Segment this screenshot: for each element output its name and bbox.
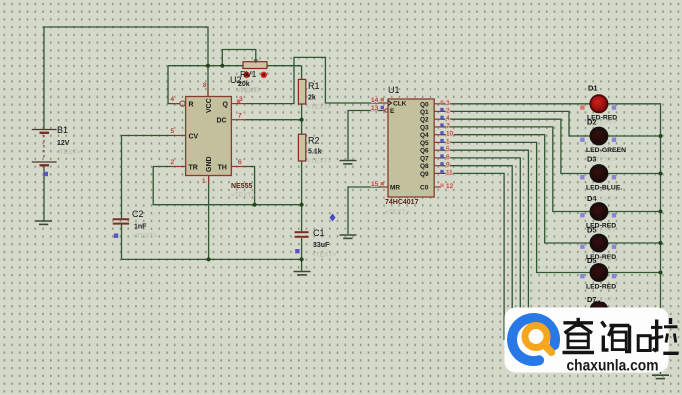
svg-text:1nF: 1nF: [134, 224, 147, 231]
svg-text:6: 6: [238, 159, 242, 166]
svg-text:10: 10: [446, 131, 454, 138]
wire 555 GND pin down: [208, 176, 210, 260]
svg-text:B1: B1: [57, 125, 68, 135]
wire TR loop under 555: [153, 167, 301, 205]
blue origin marker: [330, 214, 336, 222]
wire D1 to right bus: [608, 104, 661, 374]
capacitor C1 value 33uF: [295, 228, 337, 259]
svg-text:Q6: Q6: [420, 148, 429, 155]
svg-text:GND: GND: [206, 156, 213, 172]
junction node at wiper tap: [220, 64, 224, 68]
svg-text:14: 14: [371, 97, 379, 104]
svg-text:<TEXT>: <TEXT>: [307, 104, 331, 111]
svg-text:<TEXT>: <TEXT>: [56, 149, 80, 156]
wire Q3 to D4: [441, 127, 590, 212]
svg-text:11: 11: [446, 170, 453, 177]
svg-text:<TEXT>: <TEXT>: [592, 297, 616, 304]
svg-text:13: 13: [371, 105, 379, 112]
wire E pin to ground: [348, 111, 382, 160]
svg-text:Q1: Q1: [420, 109, 429, 116]
svg-text:<TEXT>: <TEXT>: [312, 252, 336, 259]
svg-text:Q9: Q9: [420, 171, 429, 178]
svg-text:2: 2: [171, 159, 175, 166]
junction node TH-TR: [253, 203, 257, 207]
svg-text:Q5: Q5: [420, 140, 429, 147]
wire RV1 to R1 top: [301, 66, 303, 80]
wire D2 to bus: [608, 135, 661, 137]
wire DC pin 7: [246, 119, 302, 121]
svg-text:MR: MR: [390, 185, 400, 192]
wire MR pin to ground: [348, 187, 382, 234]
svg-text:12V: 12V: [57, 140, 70, 147]
wire TH node to C1: [301, 205, 303, 232]
svg-text:Q3: Q3: [420, 124, 429, 131]
wire D7 to bus: [608, 309, 661, 311]
junction node bus D2: [659, 134, 663, 138]
op timer NE555 U2: [171, 75, 262, 199]
svg-text:<TEXT>: <TEXT>: [592, 228, 616, 235]
svg-text:CLK: CLK: [393, 101, 407, 108]
wire Q5 to D6: [441, 142, 590, 272]
svg-text:2: 2: [446, 108, 450, 115]
svg-text:<TEXT>: <TEXT>: [231, 192, 255, 199]
LED D1 lit red: [580, 84, 617, 122]
watermark chaxunla: [505, 308, 669, 373]
svg-text:6: 6: [446, 154, 450, 161]
LED D2 green off: [580, 118, 626, 155]
svg-text:<TEXT>: <TEXT>: [592, 120, 616, 127]
svg-text:<TEXT>: <TEXT>: [385, 209, 409, 216]
junction node bus D6: [659, 271, 663, 275]
wire DC node to R2 top: [301, 120, 303, 135]
svg-text:<TEXT>: <TEXT>: [307, 158, 331, 165]
wire battery negative to ground: [43, 167, 45, 221]
wire Q8 down: [441, 166, 512, 340]
svg-text:LED-GREEN: LED-GREEN: [586, 147, 626, 154]
svg-text:TH: TH: [218, 165, 227, 172]
battery B1: [32, 125, 81, 176]
svg-text:7: 7: [238, 113, 242, 120]
ground for MR pin: [340, 235, 357, 238]
resistor R1 2k: [298, 79, 331, 111]
wire D3 to bus: [608, 173, 661, 175]
svg-text:C2: C2: [132, 209, 144, 219]
wire RV1 wiper: [222, 50, 256, 66]
wire D5 to bus: [608, 242, 661, 244]
wire Q0 to D1: [441, 103, 590, 105]
wire D6 to bus: [608, 272, 661, 274]
wire Q9 down: [441, 173, 504, 340]
svg-text:E: E: [390, 108, 395, 115]
resistor R2 5.1k: [298, 134, 331, 165]
wire VCC rail from battery to 555: [44, 27, 208, 130]
wire Q4 to D5: [441, 135, 590, 243]
svg-text:3: 3: [446, 100, 450, 107]
junction node at C1 bottom: [300, 257, 304, 261]
potentiometer RV1 20k: [236, 60, 267, 95]
watermark chinese text: [563, 318, 679, 354]
svg-text:LED-BLUE.: LED-BLUE.: [586, 185, 622, 192]
LED D3 blue off: [580, 155, 622, 192]
svg-text:D1: D1: [588, 84, 598, 93]
wire ground bus under 555: [122, 224, 302, 259]
svg-text:U2: U2: [230, 75, 242, 85]
LED D4 red off: [580, 194, 616, 230]
svg-text:9: 9: [446, 162, 450, 169]
wire C1 bottom to ground: [301, 238, 303, 271]
ground below C1: [294, 272, 311, 275]
svg-text:15: 15: [371, 181, 379, 188]
wire main horizontal VCC node: [168, 65, 302, 67]
wire Q7 down: [441, 158, 520, 340]
capacitor C2 value 1nF: [113, 209, 158, 240]
svg-text:Q8: Q8: [420, 163, 429, 170]
svg-text:4: 4: [171, 96, 175, 103]
wire R2 bottom to TH node: [301, 161, 303, 205]
junction node bus D5: [659, 241, 663, 245]
svg-text:C1: C1: [313, 228, 325, 238]
svg-text:VCC: VCC: [206, 98, 213, 113]
wire CV to C2: [122, 136, 172, 219]
wire R1 bottom to DC node: [301, 104, 303, 120]
svg-text:R: R: [189, 102, 194, 109]
wire Q6 to D7: [441, 150, 590, 310]
svg-text:R2: R2: [308, 136, 320, 146]
svg-text:<TEXT>: <TEXT>: [133, 233, 157, 240]
ground bottom right bus: [652, 375, 669, 378]
svg-text:<TEXT>: <TEXT>: [592, 258, 616, 265]
ground for E pin: [340, 161, 357, 164]
wire TH pin 6 down: [246, 167, 255, 205]
svg-text:RV1: RV1: [240, 69, 257, 79]
svg-text:8: 8: [203, 82, 207, 89]
svg-text:Q2: Q2: [420, 117, 429, 124]
svg-text:<TEXT>: <TEXT>: [592, 157, 616, 164]
svg-text:12: 12: [446, 183, 454, 190]
svg-text:1: 1: [446, 139, 450, 146]
svg-text:Q0: Q0: [420, 101, 429, 108]
svg-text:1: 1: [202, 178, 206, 185]
svg-text:<TEXT>: <TEXT>: [237, 87, 261, 94]
wire Q2 to D3: [441, 119, 590, 173]
svg-text:TR: TR: [189, 165, 198, 172]
svg-text:U1: U1: [388, 85, 400, 95]
LED D7 red off partially hidden: [580, 295, 616, 319]
svg-text:chaxunla.com: chaxunla.com: [567, 358, 659, 375]
ground battery: [35, 221, 52, 224]
wire reset pin loop: [168, 66, 180, 104]
svg-text:NE555: NE555: [231, 183, 253, 190]
svg-text:2k: 2k: [308, 95, 316, 102]
svg-text:CV: CV: [189, 134, 199, 141]
svg-text:DC: DC: [217, 118, 227, 125]
svg-text:5.1k: 5.1k: [308, 149, 322, 156]
svg-text:<TEXT>: <TEXT>: [592, 196, 616, 203]
LED D6 red off: [580, 256, 616, 291]
junction node at DC pin: [300, 118, 304, 122]
junction node bus D3: [659, 172, 663, 176]
wire Q1 to D2: [441, 111, 590, 136]
svg-text:C0: C0: [420, 185, 429, 192]
counter U1 output pins Q0-Q9 CO: [420, 100, 454, 192]
LED D5 red off: [580, 226, 616, 262]
svg-text:R1: R1: [308, 81, 320, 91]
junction node bus D4: [659, 210, 663, 214]
svg-text:4: 4: [446, 115, 450, 122]
svg-text:33uF: 33uF: [313, 242, 330, 249]
svg-text:5: 5: [446, 146, 450, 153]
svg-text:Q4: Q4: [420, 132, 429, 139]
junction node at C1 top: [300, 203, 304, 207]
svg-text:7: 7: [446, 123, 450, 130]
svg-text:5: 5: [171, 128, 175, 135]
svg-text:LED-RED: LED-RED: [586, 284, 616, 291]
counter 74HC4017 U1: [371, 85, 434, 216]
svg-text:Q7: Q7: [420, 156, 429, 163]
watermark url text: [567, 358, 659, 375]
svg-text:74HC4017: 74HC4017: [385, 199, 419, 206]
wire Q output to CLK of U1: [246, 57, 382, 103]
svg-text:Q: Q: [223, 102, 229, 109]
wire D4 to bus: [608, 211, 661, 213]
junction node at VCC drop: [206, 64, 210, 68]
junction node at 555 gnd: [207, 257, 211, 261]
